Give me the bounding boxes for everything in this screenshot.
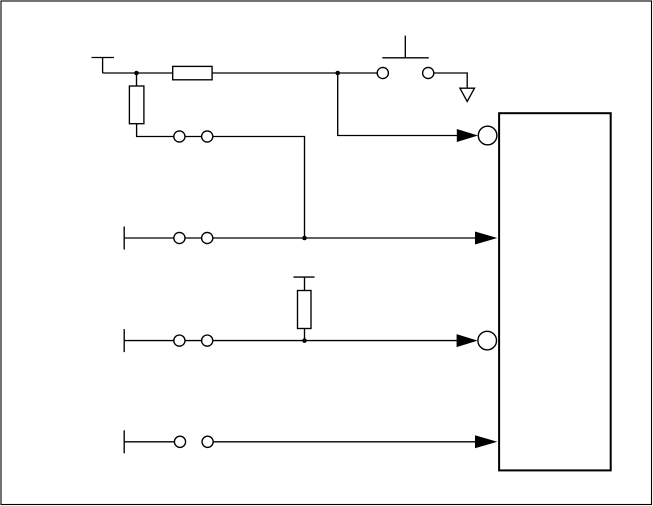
wire [136,73,138,86]
junction node C [302,236,307,241]
ground [460,88,475,101]
jumper J2 (closed) [174,232,213,243]
resistor R3 [298,291,312,329]
wire [137,124,305,238]
terminal tick row 4 [123,430,125,453]
power tap symbol (above R3) [294,277,315,290]
junction node B [335,71,340,76]
resistor R2 [129,86,144,124]
terminal tick row 3 [123,329,125,352]
wire [213,441,475,443]
IC U1 [499,113,611,470]
wire [124,340,457,342]
wire [212,72,377,74]
wire [124,237,475,239]
inverting bubble pin 3 [478,331,497,350]
jumper J3 (closed) [174,335,213,346]
inverting bubble pin 1 [478,126,497,145]
power rail symbol (top left) [92,58,115,74]
jumper J1 (closed) [174,131,213,142]
wire [304,329,306,341]
jumper J4 (open) [174,436,213,447]
wire [103,72,173,74]
resistor R1 [173,66,212,79]
arrow into U1 pin 4 [475,435,497,448]
arrow into U1 pin 3 [457,334,478,347]
pushbutton switch S1 [377,36,434,79]
wire [124,441,174,443]
arrow into U1 pin 2 [475,232,497,245]
terminal tick row 2 [123,227,125,250]
junction node A [134,71,139,76]
wire [434,73,467,88]
arrow into U1 pin 1 [457,129,478,142]
wire [338,73,458,136]
junction node D [302,338,307,343]
